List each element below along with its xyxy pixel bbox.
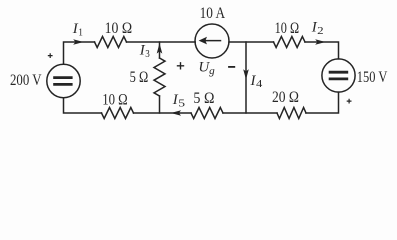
- svg-text:150 V: 150 V: [357, 69, 388, 86]
- resistor R5 5 Ohm bottom-middle zigzag: [191, 108, 223, 119]
- svg-text:5: 5: [178, 98, 185, 110]
- wire: left source top lead to top rail to R1: [64, 42, 95, 64]
- svg-text:5 Ω: 5 Ω: [193, 90, 214, 107]
- wire: I4 middle branch vertical: [245, 42, 247, 113]
- wire: bottom rail R5 to R6, through node at x=246: [223, 112, 277, 114]
- resistor R2 10 Ohm top-right zigzag: [274, 37, 306, 48]
- arrow I2 head: [315, 39, 325, 45]
- plus sign V1 polarity: [48, 53, 53, 58]
- wire: left source bottom lead to bottom rail to R4: [64, 98, 102, 113]
- arrow I3 head (up): [157, 43, 163, 53]
- plus sign of Ug polarity: [177, 62, 184, 69]
- svg-text:4: 4: [256, 78, 263, 90]
- arrow I1 head: [73, 39, 83, 45]
- svg-text:20 Ω: 20 Ω: [272, 89, 299, 106]
- resistor R3 5 Ohm vertical zigzag: [154, 58, 165, 96]
- wire: bottom rail R4 to R5, through node at x=159.5: [134, 112, 192, 114]
- svg-text:10 Ω: 10 Ω: [105, 20, 133, 37]
- plus sign V2 polarity: [347, 99, 352, 104]
- arrow I5 head (left): [171, 110, 181, 116]
- minus sign of Ug polarity: [228, 66, 235, 68]
- svg-text:5 Ω: 5 Ω: [130, 69, 149, 86]
- svg-text:10 Ω: 10 Ω: [102, 91, 128, 108]
- resistor R6 20 Ohm bottom-right zigzag: [277, 108, 306, 119]
- current source Ug circle: [195, 24, 229, 58]
- wire: bottom rail R6 to right source bottom lead: [306, 92, 339, 113]
- resistor R4 10 Ohm bottom-left zigzag: [102, 108, 134, 119]
- resistor R1 10 Ohm top-left zigzag: [95, 37, 127, 48]
- current source arrow shaft: [206, 40, 221, 42]
- svg-text:1: 1: [78, 26, 83, 38]
- svg-text:10 Ω: 10 Ω: [275, 20, 300, 37]
- wire: top rail R1 to current source, through node at x=159.5: [127, 41, 196, 43]
- voltage source V2 150 V circle (right): [322, 59, 355, 92]
- svg-text:g: g: [209, 65, 215, 77]
- voltage source V1 200 V circle (left): [47, 64, 80, 97]
- wire: top rail current source to R2, through node at x=246: [229, 41, 274, 43]
- wire: top rail R2 to right source top lead: [305, 42, 339, 59]
- current source arrow head (left): [199, 37, 207, 45]
- wire: I3/R3 branch bottom lead to bottom rail: [159, 96, 161, 113]
- arrow I4 head (down): [243, 69, 249, 79]
- svg-text:200 V: 200 V: [10, 72, 42, 89]
- svg-text:3: 3: [145, 48, 150, 60]
- V2 source bars: [329, 72, 349, 79]
- V1 source bars: [53, 78, 72, 85]
- wire: I3 branch top segment: [159, 42, 161, 58]
- svg-text:2: 2: [317, 25, 324, 37]
- svg-text:10 A: 10 A: [200, 5, 226, 22]
